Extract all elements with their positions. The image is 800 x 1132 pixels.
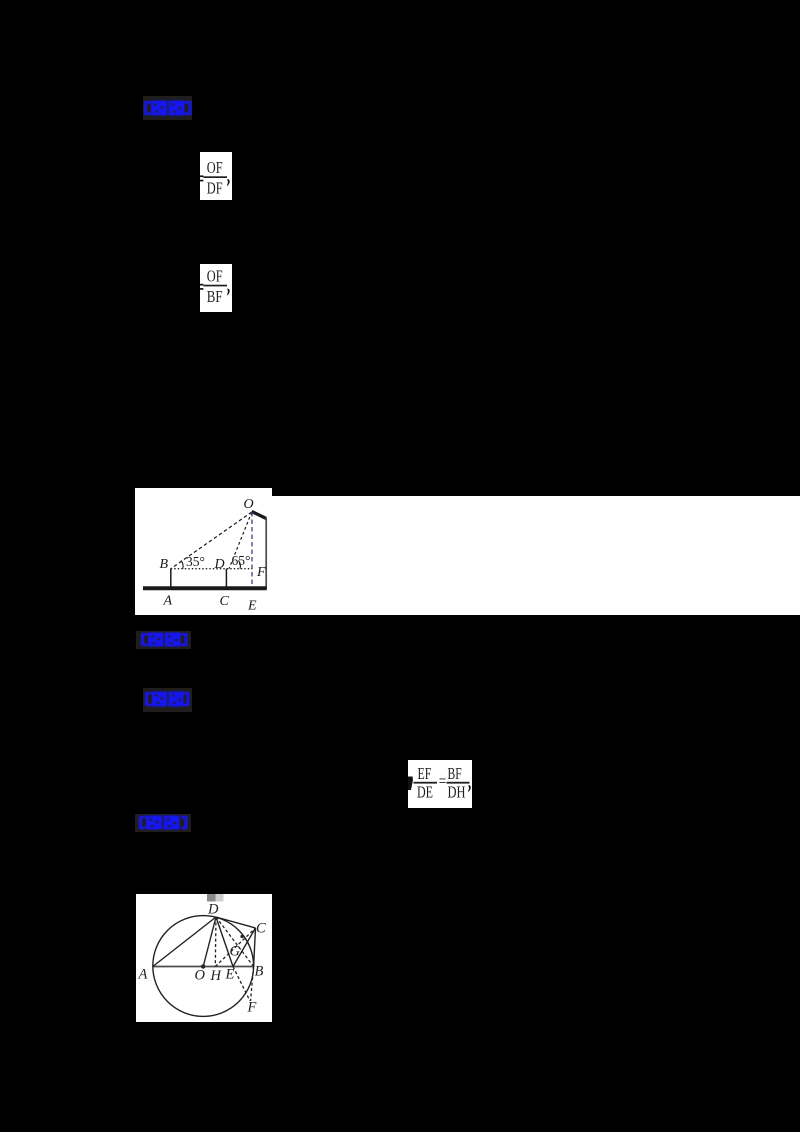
- gray notch at top: [207, 894, 216, 902]
- dashed O to B: [171, 512, 252, 569]
- svg-text:C: C: [256, 921, 266, 937]
- svg-text:DH: DH: [448, 783, 466, 802]
- svg-text:OF: OF: [207, 158, 223, 177]
- diameter A-B: [153, 966, 254, 968]
- dashed D-B: [216, 917, 254, 967]
- svg-text:B: B: [255, 964, 264, 980]
- clipped glyph at left edge: [408, 777, 413, 791]
- ground thick line: [143, 586, 267, 590]
- D-C: [216, 917, 256, 928]
- svg-text:E: E: [225, 967, 235, 983]
- right vertical gray line: [265, 518, 267, 589]
- dashed O to D: [229, 512, 252, 569]
- svg-text:OF: OF: [207, 266, 223, 285]
- svg-text:DF: DF: [207, 179, 223, 198]
- svg-text:BF: BF: [448, 764, 462, 783]
- svg-text:=: =: [439, 771, 447, 790]
- svg-text:B: B: [160, 557, 169, 572]
- clipped equals at left edge: [200, 175, 203, 177]
- center dot O: [201, 964, 205, 968]
- dotted horizontal B..E: [171, 568, 252, 570]
- blue label 1: [143, 96, 192, 120]
- dashed E-F: [233, 967, 250, 1002]
- blue label 4: [135, 814, 191, 832]
- svg-text:F: F: [247, 1000, 257, 1016]
- white band: figure 1 box: [135, 488, 272, 615]
- svg-text:35°: 35°: [186, 554, 205, 569]
- figure 2 drawing: [136, 894, 271, 1022]
- svg-text:G: G: [230, 944, 241, 960]
- D-O: [203, 917, 216, 967]
- circle: [153, 916, 254, 1017]
- D-E: [216, 917, 233, 967]
- svg-text:DE: DE: [417, 783, 433, 802]
- chord A-D: [153, 917, 216, 967]
- vertical D-C: [225, 569, 227, 587]
- svg-text:D: D: [214, 557, 225, 572]
- blue label 2: [136, 631, 191, 649]
- comma: [227, 179, 230, 186]
- fraction box EF/DE = BF/DH: [408, 760, 472, 808]
- dot on arc DB: [240, 935, 243, 938]
- svg-text:C: C: [220, 594, 230, 609]
- svg-text:A: A: [163, 594, 173, 609]
- fraction box OF/BF: [200, 264, 232, 312]
- svg-text:O: O: [244, 497, 254, 512]
- svg-text:E: E: [247, 599, 257, 614]
- svg-text:H: H: [210, 968, 223, 984]
- E-C: [233, 928, 256, 967]
- C-B: [254, 928, 256, 967]
- svg-text:EF: EF: [418, 764, 432, 783]
- svg-text:A: A: [138, 967, 148, 983]
- figure 1 drawing: [135, 488, 272, 615]
- navy dashed O to E: [251, 512, 253, 589]
- white band: strip to the right: [272, 496, 800, 615]
- white box: figure 2 (circle): [136, 894, 272, 1022]
- dashed H-C: [215, 928, 255, 967]
- svg-text:D: D: [207, 902, 219, 918]
- svg-text:BF: BF: [207, 287, 223, 306]
- svg-text:F: F: [256, 565, 266, 580]
- comma: [468, 785, 471, 792]
- angle arc at D: [239, 561, 241, 569]
- blue label 3: [143, 688, 192, 712]
- roof thick line from O: [252, 512, 266, 519]
- angle arc at B: [181, 561, 183, 569]
- svg-text:65°: 65°: [232, 553, 251, 568]
- vertical B-A: [170, 569, 172, 587]
- dashed B-F: [251, 967, 254, 1002]
- fraction box OF/DF: [200, 152, 232, 200]
- dashed D-H: [214, 917, 217, 967]
- svg-text:O: O: [195, 968, 206, 984]
